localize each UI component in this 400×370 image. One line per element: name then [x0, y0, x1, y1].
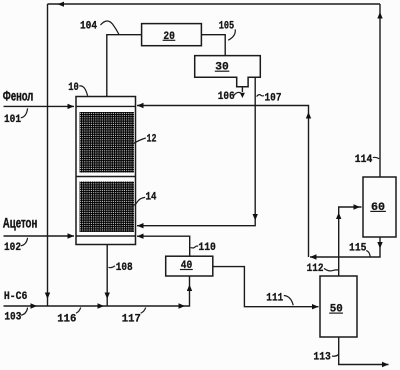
arrow into column from 107: [137, 223, 144, 228]
wire 115 from box 60 bottom to riser: [310, 237, 380, 257]
box 60: [363, 177, 396, 237]
svg-text:106: 106: [218, 91, 235, 103]
wire left recycle vertical: [47, 4, 49, 306]
leader 105: [228, 29, 235, 40]
arrow up into box 40: [187, 285, 192, 292]
arrow into box 60: [354, 204, 361, 209]
svg-text:108: 108: [116, 262, 133, 274]
underline 20: [163, 39, 176, 41]
wire 108: [106, 245, 108, 307]
underline 60: [370, 210, 386, 212]
arrow right near nc6 inlet: [31, 303, 38, 308]
leader 103: [21, 308, 28, 316]
wire 107: [137, 77, 255, 226]
svg-text:117: 117: [122, 314, 141, 326]
underline 50: [329, 312, 343, 314]
wire 113: [339, 337, 389, 365]
arrow down on wire 115: [377, 242, 382, 249]
arrow right before riser to 40: [179, 303, 186, 308]
svg-text:10: 10: [68, 82, 79, 94]
leader 113: [332, 355, 339, 357]
column bed divider line: [76, 176, 136, 178]
arrow left on top wire: [58, 2, 65, 7]
bed 14 packing: [80, 182, 135, 233]
svg-text:111: 111: [266, 292, 283, 304]
leader 104: [101, 21, 120, 35]
arrow down on wire 108: [105, 293, 110, 300]
arrow up on wire 114: [377, 12, 382, 19]
svg-text:103: 103: [4, 312, 21, 324]
leader 116: [76, 308, 81, 314]
leader 117: [141, 308, 146, 314]
svg-text:112: 112: [307, 263, 324, 275]
svg-text:113: 113: [313, 352, 331, 364]
arrow right on wire 113: [382, 362, 389, 367]
column 10: [76, 97, 136, 245]
underline 40: [180, 269, 193, 271]
svg-text:116: 116: [57, 314, 76, 326]
bed 12 packing: [80, 112, 135, 173]
leader 108 dash: [109, 266, 116, 268]
arrow into column from 110: [137, 234, 144, 239]
underline 30: [215, 70, 230, 72]
leader 106: [234, 92, 242, 95]
svg-text:Н-С6: Н-С6: [4, 291, 28, 303]
svg-text:104: 104: [80, 20, 97, 32]
wire bottom nc6 header: [4, 276, 190, 306]
box 30: [195, 56, 261, 87]
wire phenol feed 101: [4, 105, 75, 107]
leader 14: [133, 197, 145, 205]
wire 110: [137, 236, 190, 256]
column top distributor line: [76, 105, 136, 107]
svg-text:20: 20: [163, 31, 175, 43]
svg-text:12: 12: [147, 134, 157, 146]
svg-text:107: 107: [265, 92, 282, 104]
leader 102: [21, 238, 28, 246]
arrow left into riser junction: [310, 254, 317, 259]
svg-text:14: 14: [146, 192, 157, 204]
arrow up on riser 112: [306, 112, 311, 119]
arrow acetone into column: [68, 233, 75, 238]
wire recycle to column top from 112 junction: [137, 106, 309, 258]
svg-text:Ацетон: Ацетон: [3, 215, 38, 230]
arrow up on wire 50-60: [336, 213, 341, 220]
leader 111: [284, 296, 293, 306]
svg-text:Фенол: Фенол: [3, 89, 34, 104]
svg-text:101: 101: [4, 114, 21, 126]
arrow phenol into column: [68, 104, 75, 109]
wire acetone feed 102: [4, 235, 75, 237]
box 50: [320, 276, 357, 337]
arrow down on wire 107: [253, 214, 258, 221]
leader 110 dash: [191, 246, 199, 248]
svg-text:105: 105: [219, 20, 235, 32]
box 40: [166, 256, 213, 276]
wire 111 from box 40 to box 50: [213, 267, 319, 307]
arrow into column top right: [137, 103, 144, 108]
wire 106 purge stub: [241, 87, 243, 92]
svg-text:102: 102: [4, 242, 21, 254]
leader 101: [21, 108, 28, 118]
svg-text:110: 110: [198, 242, 216, 254]
box 20: [142, 24, 202, 46]
arrow right mid header: [98, 303, 105, 308]
leader 115: [366, 251, 370, 257]
svg-text:115: 115: [349, 242, 367, 254]
leader 10: [79, 86, 87, 96]
svg-text:114: 114: [355, 154, 373, 166]
wire 104: [107, 35, 142, 97]
wire 105: [201, 35, 225, 56]
leader 114: [373, 157, 379, 158]
wire top recycle horizontal: [48, 3, 381, 5]
leader 12: [133, 138, 146, 144]
wire 112 from box 50 top to box 60: [339, 207, 362, 276]
svg-text:60: 60: [371, 202, 385, 214]
arrow into box 50: [312, 304, 319, 309]
arrow 106 down: [240, 93, 245, 98]
arrow down on left recycle: [45, 293, 50, 300]
wire 114: [379, 4, 381, 177]
leader 107 tilde: [257, 95, 264, 97]
column bottom distributor line: [76, 235, 136, 237]
leader 112: [324, 268, 338, 271]
